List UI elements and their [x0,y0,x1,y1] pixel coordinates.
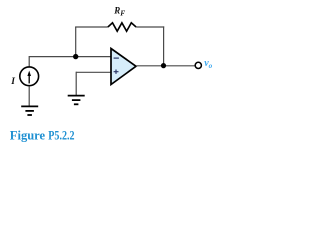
ground: noninverting input [68,96,85,105]
resistor RF [108,23,136,31]
svg-text:vo: vo [204,58,212,70]
svg-text:I: I [10,77,15,87]
current source arrow [28,75,30,84]
wire: output [136,65,195,67]
wire: top-left horizontal to resistor [75,26,108,28]
wire: current source to ground [28,86,30,106]
node B: output junction dot [161,63,166,68]
node A: feedback junction dot [73,54,78,59]
wire: noninverting input horizontal [76,71,111,73]
wire: inverting input horizontal [29,56,111,58]
op-amp U1 [111,49,136,85]
output terminal [195,62,201,68]
ground: current source [21,106,38,115]
wire: right feedback vertical [163,26,165,65]
current source I1 [20,67,39,86]
svg-text:FigureP5.2.2: FigureP5.2.2 [10,128,75,142]
svg-text:RF: RF [113,6,125,18]
wire: current source riser [28,56,30,67]
wire: top-right horizontal from resistor [136,26,164,28]
wire: left feedback vertical [75,27,77,57]
op-amp plus sign [114,70,119,74]
wire: noninverting input drop to ground [75,72,77,96]
op-amp minus sign [114,57,119,59]
